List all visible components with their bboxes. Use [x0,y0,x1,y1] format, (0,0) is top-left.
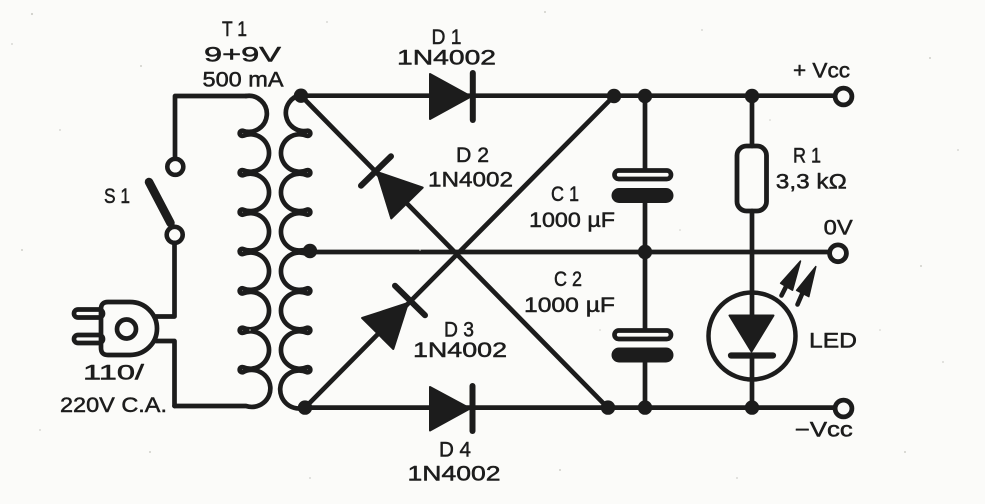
junction: C1 top [638,89,652,103]
label 110/220V C.A. [60,362,167,418]
label C2 1000uF [524,268,615,317]
diode D3 [362,286,425,349]
junction: secondary bottom node [298,400,312,414]
wire: R1 to LED [750,211,755,316]
wire: bottom rail (-Vcc rail) [305,405,834,410]
diode D1 [430,73,473,120]
svg-text:0V: 0V [824,217,853,240]
junction: C2 bottom [638,400,652,414]
svg-text:+ Vcc: + Vcc [793,60,850,83]
LED (indicator diode) [709,293,796,409]
junction: diag D2 to bottom rail [601,400,615,414]
label D4 1N4002 [408,439,501,486]
diode D2 [361,156,423,218]
svg-text:1000 µF: 1000 µF [524,294,615,317]
capacitor C1 [612,171,673,203]
transformer T1 secondary winding [280,95,310,409]
wire: top rail (+Vcc rail) [301,93,834,98]
svg-text:D 2: D 2 [456,144,489,167]
label C1 1000uF [529,183,615,232]
svg-text:C 2: C 2 [554,268,582,291]
wire: C2 branch vertical [643,252,648,408]
junction: C1-C2 on 0V [638,245,652,259]
junction: center tap node [303,244,317,258]
svg-text:1N4002: 1N4002 [428,169,513,192]
terminal 0V [830,245,847,262]
label R1 3,3 kOhm [776,145,847,194]
wire: plug top contact to switch S1 [156,244,175,317]
svg-text:3,3 kΩ: 3,3 kΩ [776,171,847,194]
switch S1 [149,159,183,243]
svg-text:1N4002: 1N4002 [397,47,496,70]
label D1 1N4002 [397,26,496,70]
plug P1 (110/220V mains plug) [74,302,157,355]
svg-text:R 1: R 1 [793,145,821,168]
terminal +Vcc [835,88,852,105]
svg-text:1000 µF: 1000 µF [529,209,615,232]
svg-text:LED: LED [809,330,857,353]
label D3 1N4002 [413,319,507,363]
resistor R1 [737,146,767,211]
capacitor C2 [612,331,673,363]
junction: LED bottom [745,400,759,414]
wire: diagonal from secondary bottom to top rail (D3 branch) [305,96,614,408]
wire: plug bottom contact to primary bottom [156,341,175,406]
svg-text:1N4002: 1N4002 [413,339,507,362]
wire: R1/LED branch top [750,96,755,146]
label D2 1N4002 [428,144,513,192]
label T1 9+9V 500mA [203,18,284,92]
wire: diagonal from secondary top to bottom rail (D2 branch) [301,96,608,408]
wire: 0V rail from center tap [309,250,828,255]
LED light arrows [781,261,816,305]
svg-text:D 4: D 4 [439,439,471,462]
svg-text:−Vcc: −Vcc [795,419,853,442]
svg-text:500 mA: 500 mA [203,69,284,92]
terminal -Vcc [835,400,852,417]
wire: switch top to primary top [175,96,246,159]
svg-text:110/: 110/ [83,362,144,385]
svg-text:220V C.A.: 220V C.A. [60,394,167,417]
svg-text:T 1: T 1 [222,18,247,41]
diode D4 [430,386,473,431]
junction: R1 top [745,89,759,103]
junction: secondary top node [294,89,308,103]
wire: C1 branch vertical [643,96,648,252]
svg-text:C 1: C 1 [551,183,579,206]
transformer T1 primary winding [175,96,271,407]
svg-text:9+9V: 9+9V [204,44,281,67]
svg-text:S 1: S 1 [104,185,130,208]
junction: diag D3 to top rail [607,89,621,103]
svg-text:1N4002: 1N4002 [408,463,501,486]
